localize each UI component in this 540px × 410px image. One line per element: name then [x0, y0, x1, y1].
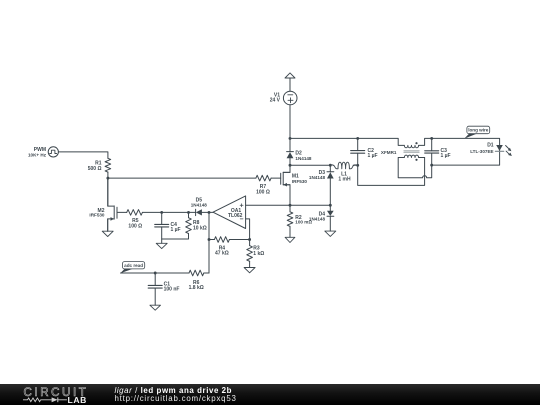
ground under R3 [244, 261, 255, 273]
svg-text:500 Ω: 500 Ω [88, 166, 102, 172]
wire PWM to R1 [58, 152, 108, 158]
svg-text:1 µF: 1 µF [368, 153, 378, 159]
diode D5 [196, 209, 202, 215]
wire secondary left lead loop with hop over vertical [398, 158, 432, 178]
MOSFET M2 [108, 178, 117, 231]
diode D3 [327, 172, 334, 179]
svg-text:100 nF: 100 nF [164, 287, 180, 293]
MOSFET M1 [281, 172, 290, 186]
svg-text:IRF530: IRF530 [89, 213, 105, 218]
svg-text:1 µF: 1 µF [441, 153, 451, 159]
ground under D4 [325, 231, 336, 236]
resistor R6 [189, 270, 204, 276]
svg-text:47 kΩ: 47 kΩ [215, 251, 229, 257]
wire C2 bottom lead [357, 153, 359, 165]
svg-text:24 V: 24 V [270, 98, 281, 104]
svg-text:1N4148: 1N4148 [309, 175, 326, 180]
caption url [115, 394, 237, 403]
wire R2 top lead [289, 205, 291, 212]
junction dots [106, 137, 433, 274]
wire op-amp non-inverting input rail to D3/D4 node [246, 204, 331, 206]
wire top rail V1 junction to transformer step [290, 138, 404, 145]
annotation tag "long wire" [464, 126, 489, 138]
svg-text:IRF530: IRF530 [292, 179, 308, 184]
resistor R2 [287, 212, 293, 227]
op-amp OA1 [213, 196, 246, 229]
wire M1 source lead down to sense node [283, 185, 290, 206]
power arrow for V1 [285, 73, 295, 91]
wire C1 leads [154, 273, 156, 305]
wire D4 leads [329, 205, 331, 231]
capacitor C2 [351, 151, 365, 154]
wire R4 left lead [209, 239, 214, 241]
svg-text:LTL-307EE: LTL-307EE [470, 149, 493, 154]
svg-text:XFMR1: XFMR1 [381, 150, 397, 155]
wire C2 node down and along bottom rail to secondary right lead [358, 158, 425, 186]
wire V1 to D2 junction [289, 105, 291, 139]
wire D2 node to D3/L1 node [290, 164, 330, 166]
wire M1 drain lead [283, 165, 290, 172]
resistor R4 [214, 237, 229, 243]
wire LED return to C3 bottom node [432, 150, 500, 165]
wire primary right lead up to top rail, to LED corner [419, 138, 500, 145]
inductor L1 [330, 162, 357, 169]
CircuitLab logo [24, 386, 89, 399]
voltage source V1 [283, 91, 297, 105]
svg-text:TL062: TL062 [228, 213, 243, 219]
svg-text:1 kΩ: 1 kΩ [253, 251, 264, 257]
diode D4 [327, 211, 334, 217]
svg-text:1N4148: 1N4148 [295, 156, 312, 161]
svg-text:1 mH: 1 mH [338, 176, 351, 182]
wire R8 top lead [188, 212, 190, 217]
svg-text:10K+ Hz: 10K+ Hz [28, 153, 47, 158]
annotation tag "adc read" [120, 262, 144, 274]
svg-text:adc read: adc read [124, 263, 143, 268]
wire R1 bottom to gate rail junction [107, 172, 109, 178]
capacitor C3 [425, 151, 439, 153]
wire R5 to D5 (C4, R8 taps) [142, 211, 195, 213]
ground under C1 [150, 305, 161, 310]
wire long gate rail R1 junction to R7 [108, 177, 256, 179]
footer bar [0, 384, 540, 405]
resistor R1 [105, 158, 111, 172]
wire M2 gate to R5 [117, 211, 127, 213]
svg-text:1N4148: 1N4148 [309, 217, 326, 222]
svg-text:100 Ω: 100 Ω [128, 223, 142, 229]
resistor R7 [256, 175, 271, 181]
svg-text:1N4148: 1N4148 [191, 202, 208, 207]
wire L1 right lead to C2 bottom node [353, 164, 358, 166]
wire op-amp inverting input to feedback node [246, 219, 250, 246]
wire R4 node down to adc rail [208, 240, 210, 274]
diode D2 [287, 152, 294, 159]
wire C3 top lead [431, 138, 433, 150]
square-wave source PWM [48, 147, 58, 157]
svg-text:D1: D1 [487, 143, 494, 149]
wire R4 right lead to inverting feedback node [229, 239, 249, 241]
caption title [115, 386, 233, 395]
resistor R8 [186, 218, 192, 234]
wire output node down to R4 left [208, 212, 210, 239]
wire secondary right lead to winding [419, 157, 425, 159]
wire D3 leads [329, 165, 331, 205]
resistor R5 [127, 210, 143, 216]
wire C4 bottom to R8 bottom [162, 227, 189, 239]
ground under C4 [156, 239, 167, 249]
wire C4 top lead [161, 212, 163, 224]
wire R7 to M1 gate [271, 177, 281, 179]
wire C2 top lead [357, 138, 359, 150]
capacitor C4 [155, 224, 169, 227]
svg-text:100 Ω: 100 Ω [256, 190, 270, 196]
svg-text:1.8 kΩ: 1.8 kΩ [189, 285, 204, 291]
ground under R2 [285, 237, 295, 242]
transformer XFMR1 [404, 142, 419, 161]
ground under M2 [102, 219, 113, 237]
wire D2 leads [289, 138, 291, 165]
wire R1 junction down to M2 drain [107, 178, 109, 206]
wire D5 to op-amp output node [202, 211, 213, 213]
capacitor C1 [148, 285, 162, 288]
LED D1 [495, 145, 512, 156]
resistor R3 [247, 246, 253, 262]
wire C3 bottom lead [431, 153, 433, 165]
svg-text:10 kΩ: 10 kΩ [193, 226, 207, 232]
wire R6 right lead [204, 272, 209, 274]
wire adc rail [121, 272, 190, 274]
wire R2 bottom stem [289, 226, 291, 237]
svg-text:long wire: long wire [468, 128, 489, 133]
svg-text:1 µF: 1 µF [171, 227, 181, 233]
